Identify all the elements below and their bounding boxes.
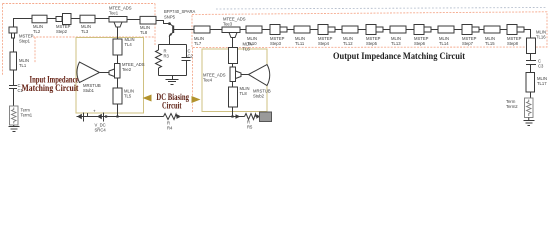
- MLIN TL2: [32, 15, 47, 23]
- MLIN TL4: [113, 39, 122, 55]
- svg-text:Stub1: Stub1: [83, 88, 95, 93]
- arrow right (DC biasing): [192, 96, 201, 103]
- svg-text:Matching Circuit: Matching Circuit: [22, 83, 79, 93]
- resistor R5: [245, 114, 257, 120]
- svg-text:R3: R3: [164, 54, 170, 59]
- node junction V_DC: [105, 115, 107, 117]
- MTEE_ADS Tee3: [222, 27, 240, 38]
- MSTEP Step8: [507, 25, 524, 35]
- node junction TL8v bottom: [231, 115, 233, 117]
- wire Tee1 to TL8: [127, 19, 140, 21]
- MSTEP Step7: [462, 25, 479, 35]
- wire top-left down from Step1: [13, 38, 15, 52]
- capacitor C2: [182, 58, 191, 76]
- MTEE_ADS Tee2: [109, 64, 120, 79]
- svg-text:R4: R4: [167, 126, 173, 131]
- wire arrow: [236, 114, 241, 119]
- svg-text:+: +: [93, 109, 96, 114]
- MSTEP Step2: [56, 14, 71, 25]
- svg-text:C3: C3: [538, 64, 544, 69]
- wire Tee3 down to TL6: [232, 38, 234, 48]
- svg-text:Step4: Step4: [318, 41, 330, 46]
- svg-text:TL4: TL4: [125, 42, 133, 47]
- wire TL2 to Step2: [47, 18, 56, 20]
- emitter arrow: [169, 33, 173, 37]
- svg-text:Tee3: Tee3: [223, 22, 233, 27]
- wire TL14 to Step7: [454, 29, 462, 31]
- wire TL5 to bottom wire: [117, 104, 119, 117]
- capacitor C3: [526, 61, 536, 75]
- MLIN TL8 (vertical): [229, 87, 238, 107]
- wire Step8 to right corner down: [524, 30, 531, 39]
- arrow left (DC biasing): [143, 95, 152, 102]
- svg-text:Step7: Step7: [462, 41, 474, 46]
- svg-text:Step5: Step5: [366, 41, 378, 46]
- svg-text:Circuit: Circuit: [162, 101, 182, 111]
- wire TL10 to Step3: [262, 29, 270, 31]
- Term1: [10, 106, 19, 125]
- MSTEP Step1: [9, 27, 17, 38]
- wire TL3 to Tee1: [95, 18, 109, 20]
- ground (Term1): [9, 125, 20, 132]
- svg-text:Term2: Term2: [506, 104, 518, 109]
- MLIN TL11: [294, 26, 310, 33]
- svg-text:Output Impedance Matching Circ: Output Impedance Matching Circuit: [333, 51, 466, 61]
- wire TL15 to Step8: [500, 29, 507, 31]
- MSTEP Step5: [366, 25, 383, 35]
- wire collector to TL7: [174, 29, 194, 31]
- svg-text:Tee1: Tee1: [109, 11, 119, 16]
- wire Tee3 to TL10: [240, 29, 246, 31]
- svg-text:TL7: TL7: [194, 41, 202, 46]
- MSTEP Step4: [318, 25, 335, 35]
- svg-text:TL6: TL6: [243, 47, 251, 52]
- svg-text:TL1: TL1: [19, 63, 27, 68]
- MLIN TL15: [484, 26, 500, 33]
- svg-text:Term1: Term1: [21, 113, 33, 118]
- MLIN TL8 (top): [140, 16, 156, 24]
- wire arrow 2: [256, 114, 260, 119]
- ground (emitter): [166, 80, 179, 85]
- yellow box right (DC bias 2): [202, 49, 267, 112]
- svg-text:TL16: TL16: [536, 35, 546, 40]
- wire Tee1 down to TL4: [117, 27, 119, 39]
- svg-text:TL15: TL15: [485, 41, 495, 46]
- MLIN TL7: [194, 26, 210, 33]
- node base junction dot: [168, 22, 171, 25]
- wire TL8v to bottom wire: [232, 107, 234, 117]
- MLIN TL10: [246, 26, 262, 33]
- wire TL12 to Step5: [358, 29, 366, 31]
- divider dashed segment: [192, 48, 194, 113]
- wire Step5 to TL13: [383, 29, 390, 31]
- wire stub1 to Tee2: [100, 72, 109, 74]
- wire Step3 to TL11: [287, 29, 294, 31]
- bottom DC wire: [77, 116, 164, 118]
- resistor R3: [156, 50, 162, 68]
- MLIN TL6: [229, 48, 238, 64]
- wire TL1 to C1: [13, 70, 15, 86]
- wire TL7 to Tee3: [210, 29, 222, 31]
- yellow box left (DC bias 1): [76, 38, 144, 114]
- svg-text:TL5: TL5: [124, 94, 132, 99]
- svg-text:TL8: TL8: [140, 30, 148, 35]
- MLIN TL16: [527, 38, 536, 54]
- svg-text:Step6: Step6: [414, 41, 426, 46]
- svg-text:TL13: TL13: [391, 41, 401, 46]
- emitter branch T wire: [159, 45, 187, 58]
- MTEE_ADS Tee4: [230, 67, 241, 82]
- svg-text:R5: R5: [247, 125, 253, 130]
- svg-text:Step2: Step2: [56, 29, 68, 34]
- svg-text:TL12: TL12: [343, 41, 353, 46]
- wire TL17 to Term2: [530, 92, 532, 98]
- svg-text:Step8: Step8: [507, 41, 519, 46]
- capacitor C1: [9, 86, 17, 107]
- svg-text:TL11: TL11: [295, 41, 305, 46]
- wire top-left corner: [14, 19, 33, 28]
- svg-text:C2: C2: [188, 54, 194, 59]
- svg-text:Stub2: Stub2: [253, 94, 265, 99]
- MRSTUB Stub2: [249, 65, 270, 86]
- MLIN TL12: [342, 26, 358, 33]
- wire TL4 to Tee2: [117, 55, 119, 64]
- wire TL13 to Step6: [406, 29, 414, 31]
- svg-text:BFP740_SPARA: BFP740_SPARA: [164, 9, 196, 14]
- wire TL11 to Step4: [310, 29, 318, 31]
- svg-text:TL8: TL8: [240, 91, 248, 96]
- svg-text:Tee4: Tee4: [203, 78, 213, 83]
- MRSTUB Stub1: [77, 62, 100, 83]
- wire Step4 to TL12: [335, 29, 342, 31]
- wire TL8 to base jog: [156, 21, 169, 24]
- MLIN TL5: [113, 88, 122, 104]
- svg-text:TL3: TL3: [81, 29, 89, 34]
- wire TL6 to Tee4: [232, 64, 234, 68]
- output matching dashed box: [192, 12, 547, 48]
- node junction TL5 bottom: [116, 115, 118, 117]
- svg-text:TL14: TL14: [439, 41, 449, 46]
- MLIN TL14: [438, 26, 454, 33]
- svg-text:Tee2: Tee2: [122, 67, 132, 72]
- input matching dashed box: [3, 4, 156, 76]
- MSTEP Step3: [270, 25, 287, 35]
- svg-text:TL17: TL17: [537, 81, 547, 86]
- svg-text:SRC4: SRC4: [95, 128, 107, 133]
- emitter branch bottom wire: [159, 76, 187, 80]
- ground (Term2): [524, 118, 535, 126]
- svg-text:SNP5: SNP5: [164, 15, 176, 20]
- MLIN TL3: [80, 15, 95, 23]
- inner left dashed segment A: [34, 37, 36, 63]
- V_DC source box (grey): [260, 112, 272, 122]
- grey dashed line: [216, 8, 546, 10]
- wire Step7 to TL15: [479, 29, 484, 31]
- MLIN TL17: [526, 73, 535, 93]
- wire TL16 to C3: [530, 54, 532, 61]
- wire Tee4 down to TL8v: [232, 82, 234, 88]
- wire Tee2 to TL5: [117, 78, 119, 88]
- wire Step6 to TL14: [431, 29, 438, 31]
- svg-text:Step3: Step3: [270, 41, 282, 46]
- svg-text:TL2: TL2: [33, 29, 41, 34]
- MSTEP Step6: [414, 25, 431, 35]
- MLIN TL1: [10, 52, 17, 70]
- wire Step2 to TL3: [70, 18, 80, 20]
- resistor R4: [164, 114, 177, 120]
- MLIN TL13: [390, 26, 406, 33]
- svg-text:Step1: Step1: [19, 39, 31, 44]
- ground sideways (left end): [77, 114, 82, 120]
- wire Tee4 to Stub2: [241, 74, 249, 76]
- Term2: [525, 98, 534, 118]
- MTEE_ADS Tee1: [109, 17, 127, 28]
